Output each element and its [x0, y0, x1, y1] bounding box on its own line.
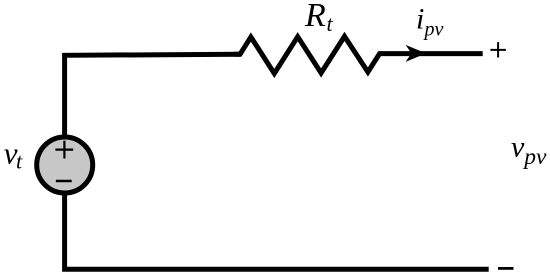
wire: left vertical from source bottom, and bottom horizontal to negative terminal [65, 192, 489, 269]
minus polarity mark inside source [56, 180, 72, 182]
svg-text:R: R [304, 0, 326, 34]
svg-text:t: t [327, 11, 334, 36]
voltage source vt (circle) [37, 137, 93, 193]
plus polarity mark inside source [55, 141, 73, 159]
node: negative output terminal (-) [498, 267, 514, 270]
current direction arrowhead for i_pv [406, 45, 426, 62]
wire: top horizontal from source to resistor, and left vertical down to source top [65, 54, 240, 138]
node: positive output terminal (+) [490, 42, 506, 57]
svg-text:pv: pv [423, 19, 444, 41]
svg-text:v: v [511, 131, 525, 164]
svg-text:pv: pv [522, 144, 547, 170]
svg-text:i: i [416, 3, 424, 36]
resistor Rt (zigzag) with right lead to positive terminal [234, 36, 483, 73]
svg-text:t: t [16, 149, 23, 174]
